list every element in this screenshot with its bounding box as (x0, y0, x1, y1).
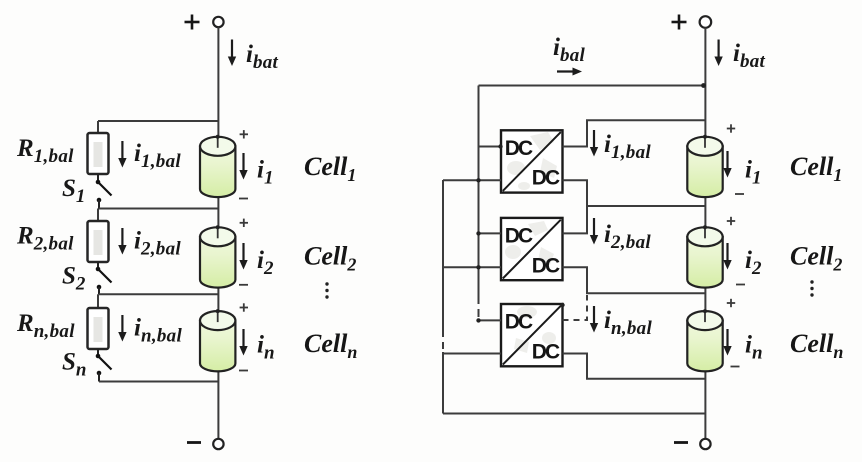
svg-text:Sn: Sn (62, 349, 87, 381)
wire: left rail 2 (99, 208, 218, 210)
polarity + of Cell2 (left) (240, 219, 248, 227)
svg-text:i1,bal: i1,bal (134, 140, 181, 172)
terminal + (left battery positive) (185, 15, 224, 30)
junction: inner bus end at Un upper-left lead (476, 318, 480, 322)
polarity - of Celln (right) (731, 366, 740, 368)
arrow i_bat (left) (228, 40, 236, 67)
cell Cell1 (right) (687, 135, 722, 197)
resistor Rn,bal (88, 308, 109, 349)
svg-text:S2: S2 (62, 263, 86, 295)
arrow i_1,bal (left) (118, 141, 126, 168)
arrow i_n (left) (239, 329, 247, 356)
wire: left rail 4 (bottom) (99, 381, 218, 383)
svg-text:i2,bal: i2,bal (604, 221, 651, 253)
cell Celln (left) (200, 309, 235, 371)
cell Cell2 (left) (200, 225, 235, 287)
cell Celln (right) (687, 309, 722, 371)
junction: inner bus and U2 upper-left lead (476, 231, 480, 235)
polarity - of Celln (left) (239, 370, 248, 372)
arrow i_bal (right-pointing) (557, 68, 582, 76)
svg-text:ibat: ibat (733, 40, 766, 72)
svg-text:in,bal: in,bal (134, 315, 182, 347)
terminal + (right battery positive) (672, 15, 712, 30)
wire: outer left bus (solid upper part) (442, 180, 444, 330)
junction: inner bus and U2 lower-left lead (476, 265, 480, 269)
wire: right top bus (479, 85, 706, 87)
polarity - of Cell1 (right) (735, 193, 744, 195)
arrow i_2,bal (right) (590, 218, 598, 245)
svg-text:i2: i2 (257, 247, 274, 279)
arrow i_2 (right) (723, 243, 731, 270)
svg-text:in: in (745, 332, 763, 364)
wire: U1 upper-left lead (479, 146, 502, 148)
arrow i_1 (right) (723, 151, 731, 178)
switch Sn (96, 349, 112, 382)
svg-text:in,bal: in,bal (604, 307, 652, 339)
svg-text:ibal: ibal (553, 34, 586, 66)
arrow i_2,bal (left) (118, 228, 126, 255)
polarity + of Celln (left) (240, 303, 248, 311)
svg-text:ibat: ibat (246, 41, 279, 73)
dc-dc converter Un (501, 304, 563, 366)
junction: U1 upper-left pin (498, 144, 502, 148)
wire: R2 top stub (97, 209, 99, 222)
svg-text:R2,bal: R2,bal (16, 223, 74, 255)
junction: inner bus and U1 lower-left lead (476, 178, 480, 182)
wire: U2 lower-left lead (443, 266, 501, 268)
terminal - (right battery negative) (674, 439, 711, 449)
polarity - of Cell1 (left) (239, 198, 248, 200)
wire: Un lower-right lead (563, 354, 706, 379)
cell Cell2 (right) (687, 225, 722, 287)
svg-text:Celln: Celln (790, 329, 843, 362)
wire: right main vertical bus (704, 27, 706, 438)
junction: top bus / main bus (701, 83, 706, 88)
polarity + of Cell1 (right) (727, 124, 735, 132)
svg-text:i1,bal: i1,bal (604, 131, 651, 163)
ellipsis dots (right) (810, 280, 813, 296)
svg-text:i1: i1 (745, 157, 762, 189)
arrow i_1 (left) (239, 153, 247, 180)
polarity + of Celln (right) (727, 299, 735, 307)
resistor R1,bal (88, 133, 109, 174)
wire: left main vertical bus (217, 27, 219, 438)
arrow i_2 (left) (239, 243, 247, 270)
junction: Un top-right corner (560, 303, 564, 307)
arrow i_n,bal (right) (590, 306, 598, 333)
arrow i_n (right) (723, 329, 731, 356)
polarity + of Cell2 (right) (727, 217, 735, 225)
polarity + of Cell1 (left) (240, 130, 248, 138)
wire: U1 lower-right lead (563, 180, 706, 206)
switch S2 (96, 262, 112, 294)
svg-text:S1: S1 (62, 175, 86, 207)
ellipsis dots (left) (325, 282, 328, 298)
wire: Un upper-left lead (479, 319, 502, 321)
dc-dc converter U1 (501, 130, 563, 192)
terminal - (left battery negative) (187, 439, 224, 449)
svg-text:Cell1: Cell1 (790, 152, 842, 185)
svg-text:in: in (257, 332, 275, 364)
resistor R2,bal (88, 221, 109, 262)
arrow i_bat (right) (714, 40, 722, 67)
svg-text:Rn,bal: Rn,bal (16, 310, 75, 342)
arrow i_n,bal (left) (118, 315, 126, 342)
cell Cell1 (left) (200, 135, 235, 197)
wire: Un upper-right lead (dashed) (563, 295, 588, 320)
arrow i_1,bal (right) (590, 130, 598, 157)
wire: outer left bus (solid lower part) (442, 352, 444, 414)
wire: U1 lower-left lead (443, 179, 501, 181)
wire: U2 lower-right lead (563, 267, 706, 293)
wire: U1 upper-right lead (563, 120, 706, 146)
wire: Un lower-left lead (443, 353, 501, 355)
svg-text:Cell2: Cell2 (304, 242, 356, 275)
svg-text:R1,bal: R1,bal (16, 135, 74, 167)
svg-text:i2: i2 (745, 247, 762, 279)
svg-text:Cell1: Cell1 (304, 152, 356, 185)
svg-text:Cell2: Cell2 (790, 242, 842, 275)
wire: inner left bus (solid part) (478, 86, 480, 297)
wire: U2 upper-right lead (563, 206, 588, 233)
wire: left rail 3 (99, 293, 218, 295)
wire: inner left bus (dashed continuation) (478, 296, 480, 320)
polarity - of Cell2 (right) (736, 284, 745, 286)
polarity - of Cell2 (left) (239, 284, 248, 286)
wire: R1 top stub (97, 121, 99, 133)
wire: U2 upper-left lead (479, 232, 502, 234)
dc-dc converter U2 (501, 218, 563, 280)
svg-text:i2,bal: i2,bal (134, 228, 181, 260)
wire: outer left bus (dashed continuation) (442, 330, 444, 352)
svg-text:Celln: Celln (304, 329, 357, 362)
wire: left rail 1 (top) (98, 120, 218, 122)
switch S1 (96, 174, 112, 209)
svg-text:i1: i1 (257, 157, 274, 189)
wire: right bottom bus rail (443, 413, 705, 415)
wire: Rn top stub (97, 294, 99, 308)
